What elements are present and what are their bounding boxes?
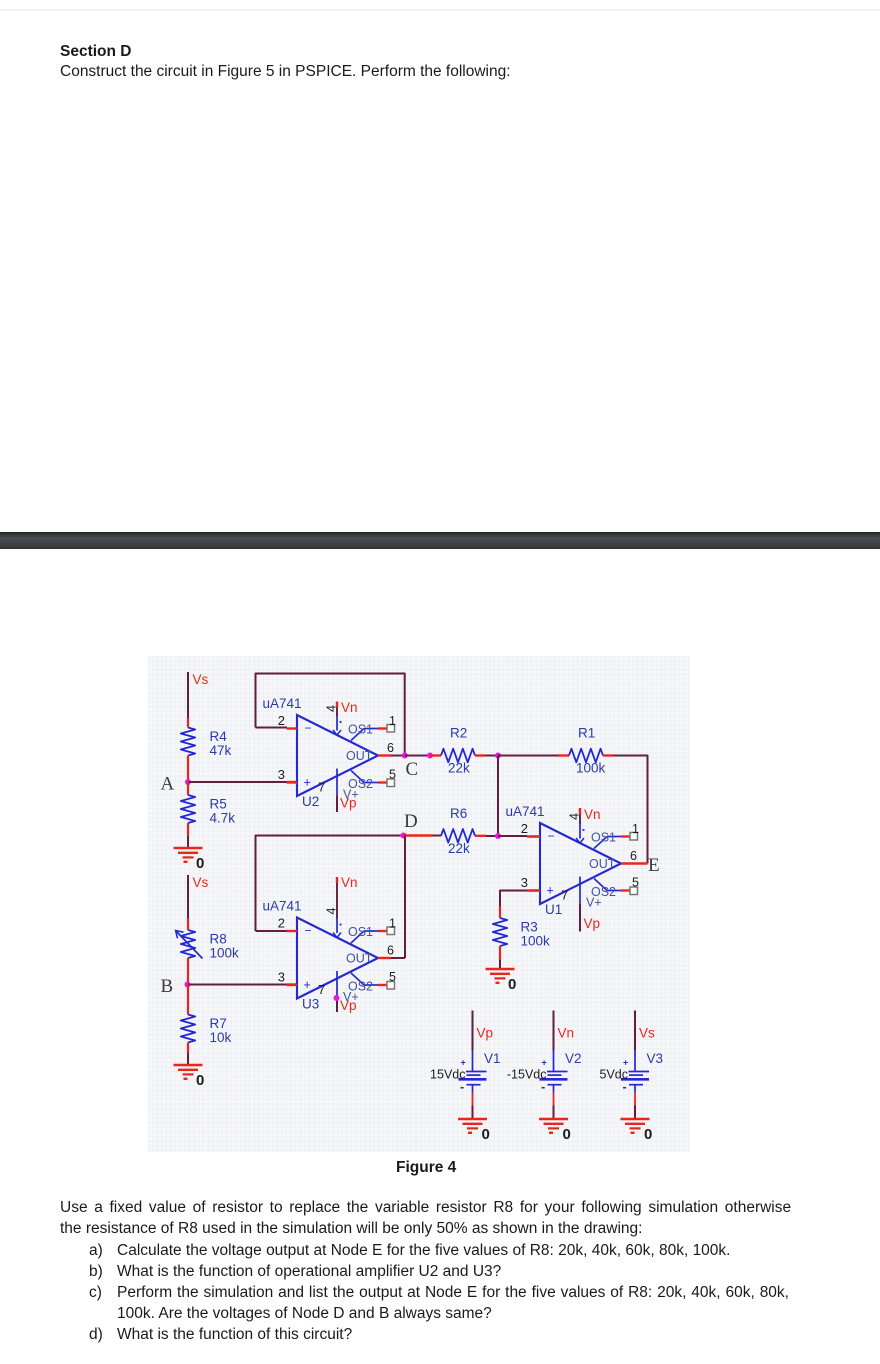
svg-text:R2: R2: [450, 726, 467, 741]
svg-text:+: +: [542, 1058, 547, 1068]
svg-text:Vs: Vs: [639, 1026, 655, 1041]
svg-text:-15Vdc: -15Vdc: [507, 1068, 547, 1082]
svg-text:Vn: Vn: [341, 700, 358, 715]
svg-text:6: 6: [630, 849, 637, 863]
svg-text:Vp: Vp: [584, 916, 601, 931]
svg-text:7: 7: [561, 888, 568, 903]
wire Vs rail down to R8: [187, 875, 189, 918]
svg-text:OUT: OUT: [346, 952, 373, 966]
wire junction to R1: [498, 755, 558, 757]
svg-text:15Vdc: 15Vdc: [430, 1068, 465, 1082]
svg-text:+: +: [547, 884, 554, 898]
svg-text:Vn: Vn: [584, 807, 601, 822]
wire R3 to ground: [499, 946, 501, 960]
svg-text:uA741: uA741: [263, 696, 302, 711]
svg-text:-: -: [623, 1080, 627, 1094]
svg-text:−: −: [548, 829, 555, 843]
svg-text:1: 1: [389, 917, 396, 931]
svg-text:R7: R7: [210, 1016, 227, 1031]
svg-text:D: D: [404, 811, 418, 832]
wire U2 pin 2 stub: [256, 727, 288, 729]
svg-text:1: 1: [632, 822, 639, 836]
node C: [402, 753, 408, 759]
svg-text:47k: 47k: [210, 743, 232, 758]
wire junction down to U1 pin 2 wire: [497, 756, 499, 837]
ground (V1): [458, 1118, 487, 1121]
svg-text:R8: R8: [210, 932, 227, 947]
svg-text:U3: U3: [302, 997, 319, 1012]
net label Vp (U1 pin 7): [579, 904, 581, 932]
svg-text:100k: 100k: [521, 934, 551, 949]
svg-text:V3: V3: [647, 1051, 664, 1066]
svg-text:1: 1: [389, 714, 396, 728]
svg-text:0: 0: [563, 1126, 571, 1143]
svg-text:V1: V1: [484, 1051, 501, 1066]
svg-text:5Vdc: 5Vdc: [600, 1068, 629, 1082]
wire node B to U3 pin 3: [188, 984, 287, 986]
page-break dark band: [0, 532, 880, 549]
heading Section D: [60, 43, 131, 61]
svg-text:6: 6: [387, 741, 394, 755]
node D: [401, 833, 407, 839]
wire node D to R6: [404, 834, 434, 836]
svg-text:22k: 22k: [448, 841, 470, 856]
node B: [185, 982, 191, 988]
svg-text:OS1: OS1: [348, 925, 373, 939]
wire node B to R7: [187, 985, 189, 1015]
ground (R3): [486, 968, 515, 971]
svg-text:uA741: uA741: [263, 899, 302, 914]
svg-text:R3: R3: [521, 920, 538, 935]
svg-text:R1: R1: [578, 726, 595, 741]
wire R1 to node E (right drop): [603, 754, 614, 756]
net label Vn (U2 pin 4): [336, 702, 338, 708]
svg-text:22k: 22k: [448, 761, 470, 776]
svg-text:0: 0: [196, 855, 204, 872]
wire R5 to ground: [187, 823, 189, 836]
net label Vn (U3 pin 4): [336, 877, 338, 883]
ground (V3): [621, 1118, 650, 1121]
svg-text:R4: R4: [210, 729, 228, 744]
op-amp U3 uA741: [297, 918, 378, 999]
svg-text:uA741: uA741: [506, 804, 545, 819]
svg-text:+: +: [304, 978, 311, 992]
svg-text:2: 2: [521, 821, 528, 836]
svg-text:C: C: [406, 759, 419, 780]
svg-text:Vp: Vp: [340, 796, 357, 811]
svg-text:OS2: OS2: [591, 885, 616, 899]
wire node A to U2 pin 3: [188, 781, 287, 783]
svg-text:U2: U2: [302, 794, 319, 809]
svg-text:E: E: [648, 855, 660, 876]
node A: [185, 779, 191, 785]
wire U2 feedback loop (pin2 to OUT): [256, 674, 405, 756]
wire U3 OUT to feedback: [378, 957, 391, 959]
svg-text:0: 0: [196, 1072, 204, 1089]
wire R7 to ground: [187, 1043, 189, 1054]
svg-text:V2: V2: [565, 1051, 582, 1066]
svg-text:100k: 100k: [210, 946, 240, 961]
svg-text:2: 2: [278, 713, 285, 728]
intro line: [60, 63, 511, 81]
svg-text:0: 0: [644, 1126, 652, 1143]
svg-text:4.7k: 4.7k: [210, 811, 236, 826]
resistor R7 10k: [181, 1015, 195, 1043]
svg-text:5: 5: [389, 970, 396, 984]
svg-text:5: 5: [632, 876, 639, 890]
svg-text:-: -: [541, 1080, 545, 1094]
resistor R6 22k: [441, 829, 475, 843]
svg-text:R6: R6: [450, 806, 467, 821]
svg-text:OS2: OS2: [348, 980, 373, 994]
svg-text:+: +: [461, 1058, 466, 1068]
svg-text:0: 0: [482, 1126, 490, 1143]
svg-text:−: −: [305, 924, 312, 938]
wire U1 pin 3 to R3: [527, 889, 540, 891]
svg-text:−: −: [305, 721, 312, 735]
wire R2 to R1 junction: [475, 754, 486, 756]
wire R4 to node A: [187, 756, 189, 783]
svg-text:6: 6: [387, 944, 394, 958]
op-amp U2 uA741: [297, 715, 378, 796]
svg-text:+: +: [304, 776, 311, 790]
svg-text:5: 5: [389, 768, 396, 782]
svg-text:100k: 100k: [576, 761, 606, 776]
variable resistor R8 100k: [181, 930, 195, 958]
svg-text:B: B: [161, 976, 174, 997]
svg-text:Vs: Vs: [193, 875, 209, 890]
caption Figure 4: [396, 1159, 456, 1177]
svg-text:10k: 10k: [210, 1030, 232, 1045]
svg-text:7: 7: [318, 982, 325, 997]
svg-text:Vs: Vs: [193, 672, 209, 687]
ground (V2): [539, 1118, 568, 1121]
wire Vs rail down to R4: [187, 672, 189, 718]
svg-text:OS2: OS2: [348, 777, 373, 791]
svg-text:R5: R5: [210, 797, 227, 812]
wire R6 to U1 pin 2: [475, 835, 486, 837]
body paragraph: [60, 1199, 791, 1217]
svg-text:OUT: OUT: [346, 749, 373, 763]
junction R2/R1 node: [495, 753, 501, 759]
circuit figure: [148, 656, 690, 1152]
wire node C to R2: [405, 755, 430, 757]
svg-text:A: A: [161, 774, 175, 795]
svg-text:Vn: Vn: [558, 1026, 575, 1041]
svg-text:OUT: OUT: [589, 857, 616, 871]
resistor R1 100k: [569, 749, 603, 763]
net label Vp (U2 pin 7): [336, 796, 338, 812]
faint top rule: [0, 9, 880, 11]
svg-text:7: 7: [318, 780, 325, 795]
svg-text:OS1: OS1: [348, 723, 373, 737]
svg-text:3: 3: [278, 767, 285, 782]
wire R8 to node B: [187, 958, 189, 985]
svg-text:3: 3: [278, 970, 285, 985]
ground (node B chain): [174, 1064, 203, 1067]
svg-text:3: 3: [521, 875, 528, 890]
resistor R2 22k: [441, 749, 475, 763]
svg-text:U1: U1: [545, 902, 562, 917]
svg-text:Vp: Vp: [477, 1026, 494, 1041]
ground (node A chain): [174, 847, 203, 850]
junction at U1 pin 2: [495, 833, 501, 839]
svg-text:Vp: Vp: [340, 998, 357, 1013]
svg-text:Vn: Vn: [341, 875, 358, 890]
net label Vp (U3 pin 7): [336, 999, 338, 1013]
wire U1 OUT to node E: [621, 862, 648, 864]
wire U3 pin 2 stub: [256, 930, 288, 932]
svg-text:+: +: [623, 1058, 628, 1068]
resistor R4 47k: [181, 728, 195, 756]
wire U2 OUT to node C: [378, 754, 391, 756]
svg-text:OS1: OS1: [591, 831, 616, 845]
svg-text:0: 0: [508, 976, 516, 993]
op-amp U1 uA741: [540, 823, 621, 904]
wire U3 feedback top / node D row: [256, 836, 404, 932]
resistor R5 4.7k: [181, 795, 195, 823]
wire U3 feedback right side (node D to OUT): [404, 836, 406, 959]
svg-text:-: -: [460, 1080, 464, 1094]
wire node A to R5: [187, 782, 189, 795]
net label Vn (U1 pin 4): [579, 808, 581, 814]
svg-text:2: 2: [278, 916, 285, 931]
resistor R3 100k: [493, 918, 507, 946]
